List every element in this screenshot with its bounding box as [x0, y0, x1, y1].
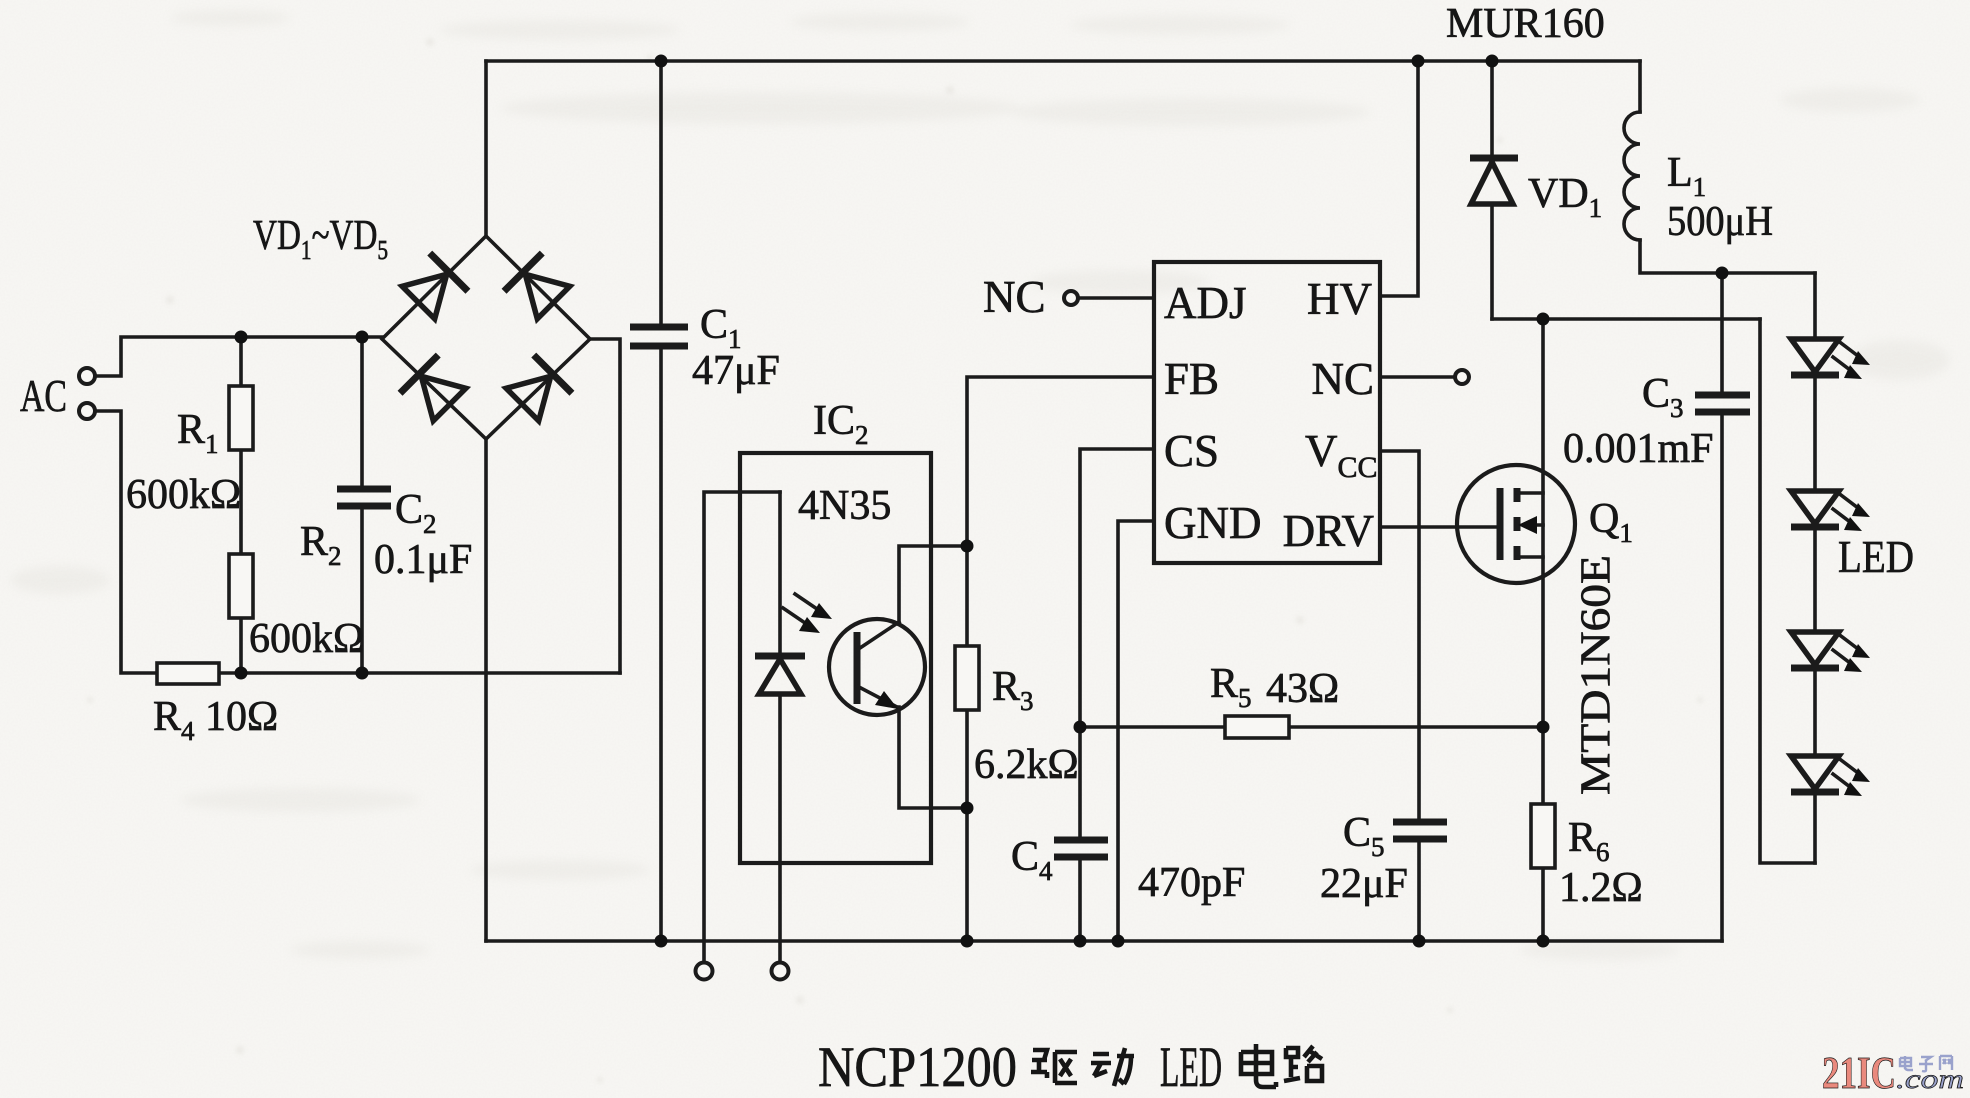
svg-text:VD1~VD5: VD1~VD5 [253, 212, 388, 265]
wire ground rail [486, 939, 1722, 943]
opto phototransistor Q [829, 619, 925, 715]
wire Q1 source to R6 [1541, 557, 1545, 941]
LED D4 [1791, 756, 1839, 789]
node gnd GND pin [1112, 935, 1125, 948]
svg-text:4N35: 4N35 [798, 483, 891, 529]
wire ADJ pin [1079, 296, 1154, 300]
terminal opto cathode [696, 963, 713, 980]
resistor R5 [1225, 716, 1289, 738]
svg-text:FB: FB [1164, 354, 1219, 404]
resistor R1 [229, 386, 253, 450]
svg-text:6.2kΩ: 6.2kΩ [974, 742, 1079, 788]
wire opto collector link [899, 546, 967, 622]
wire top DC rail [486, 59, 1640, 63]
capacitor C4 [1054, 840, 1108, 857]
node gnd R6 [1537, 935, 1550, 948]
node C2 bottom [356, 667, 369, 680]
node AC C2 top [356, 331, 369, 344]
svg-text:GND: GND [1164, 498, 1262, 548]
LED D1 [1791, 339, 1839, 372]
node CS R5 [1074, 721, 1087, 734]
wire C2 column [360, 337, 364, 673]
svg-text:R4 10Ω: R4 10Ω [153, 694, 278, 746]
wire Q1 drain [1541, 319, 1545, 493]
node AC R1 top [235, 331, 248, 344]
IC U1 NCP1200 box [1154, 262, 1380, 563]
svg-text:MTD1N60E: MTD1N60E [1574, 555, 1620, 795]
bridge diode bottom-right [503, 355, 572, 424]
node gnd R3 [961, 935, 974, 948]
wire GND pin [1118, 521, 1154, 941]
capacitor C2 [337, 489, 391, 506]
wire C3 column [1720, 273, 1724, 941]
svg-text:NC: NC [983, 272, 1046, 322]
wire opto LED cathode loop [704, 492, 780, 963]
svg-text:1.2Ω: 1.2Ω [1559, 865, 1643, 911]
node gnd C1 [655, 935, 668, 948]
caption char dian [1241, 1044, 1276, 1087]
capacitor C1 [630, 327, 688, 346]
optocoupler IC2 box [740, 453, 931, 863]
svg-text:ADJ: ADJ [1164, 278, 1247, 328]
wire bottom-left return [219, 671, 620, 675]
inductor L1 [1624, 112, 1640, 240]
svg-text:NC: NC [1311, 354, 1374, 404]
wire C1 column [659, 61, 663, 941]
resistor R6 [1531, 804, 1555, 868]
svg-text:LED: LED [1160, 1036, 1222, 1098]
bridge diode top-left [399, 253, 468, 322]
wire HV pin [1380, 61, 1418, 296]
wire VCC pin with C5 branch [1380, 451, 1419, 941]
svg-text:47μF: 47μF [692, 348, 780, 394]
svg-text:HV: HV [1307, 274, 1372, 324]
resistor R3 [955, 646, 979, 710]
svg-text:21IC: 21IC [1822, 1047, 1896, 1098]
opto light arrows [783, 594, 832, 633]
terminal NC right [1455, 370, 1469, 384]
wire LED string column [1813, 273, 1817, 863]
wire bridge top vertical [484, 61, 488, 236]
wire CS pin with C4 branch [1080, 449, 1154, 941]
wire R5 current sense [1080, 725, 1543, 729]
bridge rectifier VD1~VD5 diamond [382, 236, 590, 439]
wire L1 connections [1640, 61, 1815, 273]
svg-text:600kΩ: 600kΩ [249, 616, 364, 662]
wire opto emitter link [899, 707, 967, 808]
resistor R4 [157, 663, 219, 684]
terminal AC lower [79, 403, 95, 419]
bridge diode top-right [504, 253, 573, 322]
bridge diode bottom-left [400, 355, 469, 424]
svg-text:CS: CS [1164, 426, 1219, 476]
node FB emitter [961, 802, 974, 815]
svg-text:LED: LED [1838, 532, 1914, 582]
wire R1 R2 column [239, 337, 243, 673]
svg-text:MUR160: MUR160 [1446, 1, 1605, 47]
node FB collector [961, 540, 974, 553]
svg-text:DRV: DRV [1283, 506, 1374, 556]
node L1 C3 [1716, 267, 1729, 280]
capacitor C3 [1695, 395, 1750, 412]
svg-text:0.001mF: 0.001mF [1563, 426, 1714, 472]
node top HV [1412, 55, 1425, 68]
wire NC pin right [1380, 375, 1454, 379]
svg-text:43Ω: 43Ω [1266, 666, 1339, 712]
wire drain node [1492, 317, 1760, 321]
wire opto LED anode [778, 492, 782, 963]
LED D2 [1791, 491, 1839, 524]
svg-text:470pF: 470pF [1138, 860, 1245, 906]
node top VD1 [1486, 55, 1499, 68]
svg-text:0.1μF: 0.1μF [374, 537, 472, 583]
wire AC upper input [95, 337, 382, 376]
caption char dong [1091, 1048, 1134, 1086]
wire DRV to gate [1380, 525, 1500, 529]
wire VD1 branch [1490, 61, 1494, 319]
caption char qu [1031, 1050, 1077, 1083]
svg-text:22μF: 22μF [1320, 861, 1408, 907]
transistor Q1 MOSFET [1457, 465, 1575, 583]
node gnd C4 [1074, 935, 1087, 948]
caption char lu [1284, 1046, 1322, 1081]
opto LED diode [755, 653, 805, 660]
wire FB feedback [967, 377, 1154, 941]
wire LED return column [1760, 319, 1815, 863]
terminal opto anode [772, 963, 789, 980]
svg-text:600kΩ: 600kΩ [126, 472, 241, 518]
watermark dianzi chars [1900, 1056, 1952, 1071]
wire bridge negative leg [484, 439, 488, 941]
wire bridge right AC leg [590, 339, 620, 673]
svg-text:500μH: 500μH [1667, 199, 1773, 245]
svg-text:NCP1200: NCP1200 [818, 1036, 1017, 1098]
node source R5 R6 [1537, 721, 1550, 734]
LED D3 [1791, 632, 1839, 665]
capacitor C5 [1393, 822, 1447, 839]
resistor R2 [229, 554, 253, 618]
svg-text:AC: AC [20, 370, 67, 421]
node top C1 [655, 55, 668, 68]
wire AC lower input [95, 411, 157, 673]
svg-text:.com: .com [1896, 1064, 1964, 1094]
terminal AC upper [79, 368, 95, 384]
node gnd C5 [1413, 935, 1426, 948]
diode VD1 MUR160 [1470, 155, 1518, 162]
node R2 bottom [235, 667, 248, 680]
node drain VD1 [1537, 313, 1550, 326]
terminal NC adj [1064, 291, 1078, 305]
